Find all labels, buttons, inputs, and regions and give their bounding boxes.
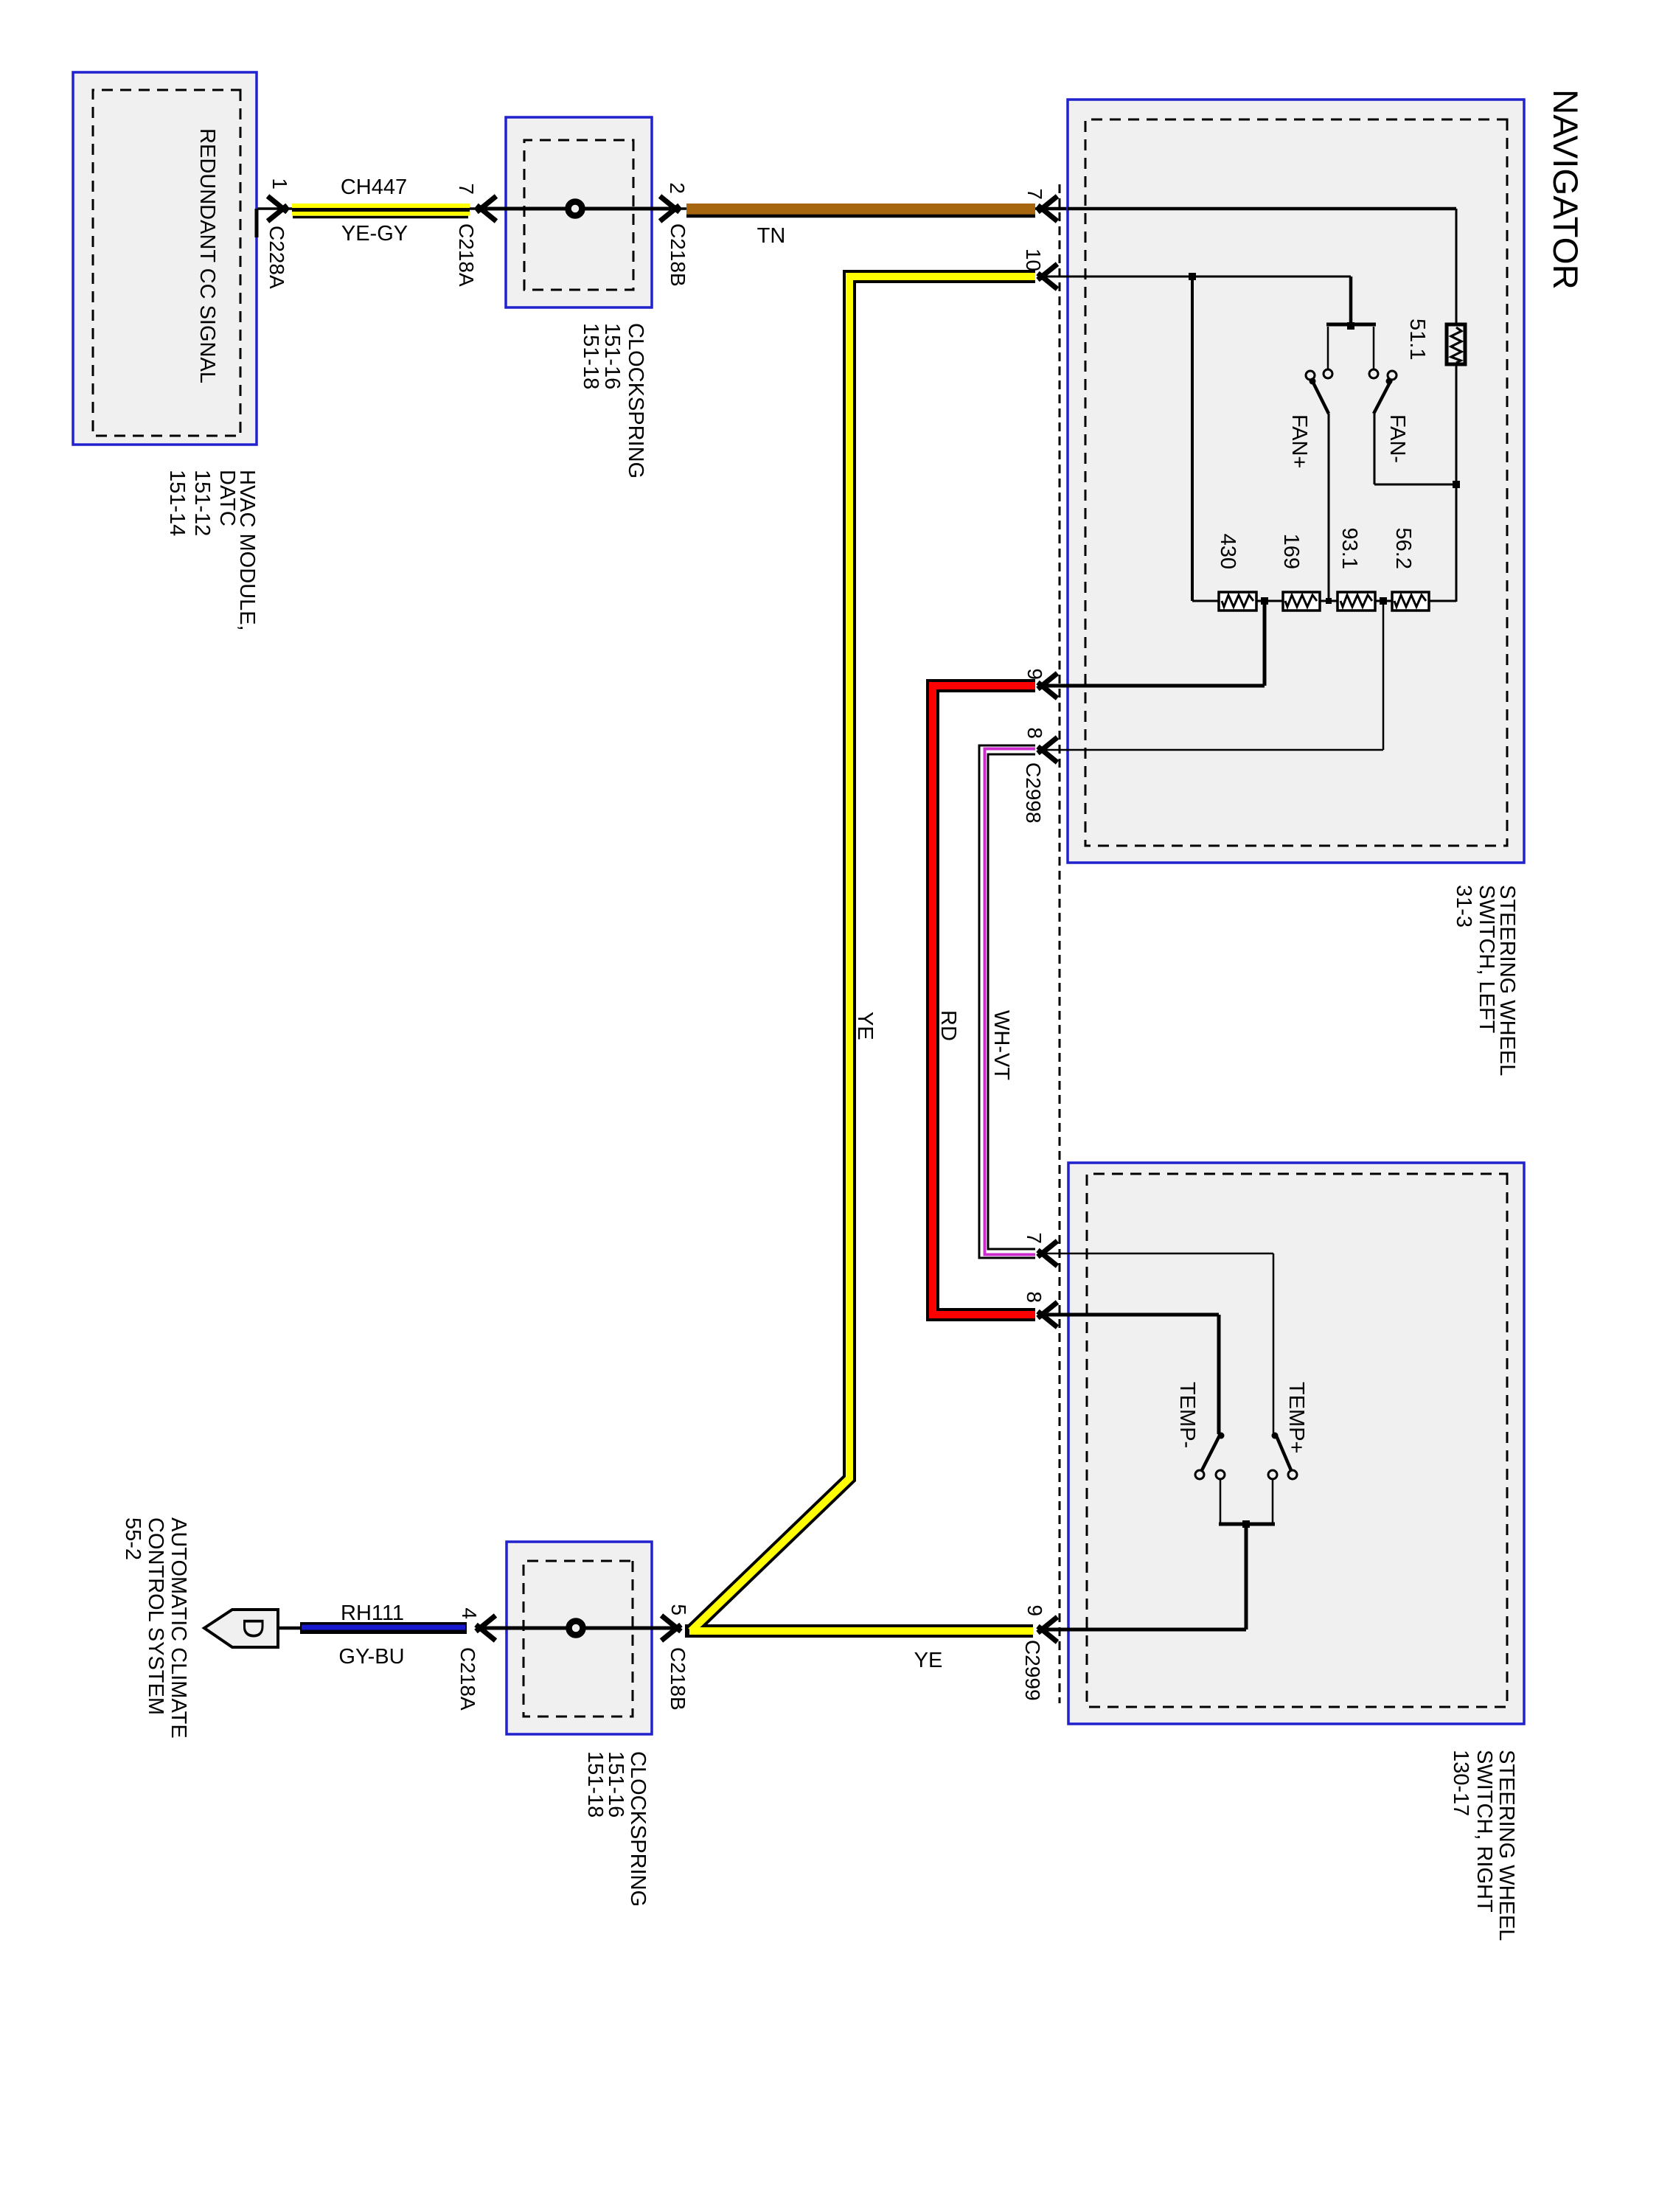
HVAC module inner dashed outline <box>93 90 240 436</box>
connector label C228A <box>265 226 288 289</box>
wire CH447 YE-GY yellow band <box>292 204 470 218</box>
svg-text:STEERING WHEEL: STEERING WHEEL <box>1495 1750 1518 1941</box>
svg-text:1: 1 <box>268 178 291 189</box>
label AUTOMATIC CLIMATE CONTROL SYSTEM 55-2 <box>121 1517 190 1739</box>
pin 9 arrow (left box) <box>1038 673 1058 698</box>
clockspring 1 coil symbol <box>568 202 582 216</box>
svg-text:D: D <box>237 1618 269 1639</box>
svg-text:CLOCKSPRING: CLOCKSPRING <box>624 323 647 479</box>
label CLOCKSPRING 151-16 151-18 (clockspring 1) <box>579 323 647 479</box>
svg-text:CLOCKSPRING: CLOCKSPRING <box>626 1751 650 1907</box>
value label 56.2 <box>1391 528 1415 569</box>
clockspring 2 inner dashed outline <box>524 1561 633 1717</box>
svg-text:430: 430 <box>1216 534 1239 569</box>
wire: pin 8 riser inside right box <box>1039 1313 1219 1317</box>
svg-text:8: 8 <box>1023 727 1046 739</box>
switch common bar (TEMP switches) <box>1219 1523 1275 1526</box>
pin label 4 (clockspring 2) <box>458 1607 481 1619</box>
wire: pin 9 riser inside left box <box>1039 684 1265 688</box>
value label 93.1 <box>1338 528 1361 569</box>
steering wheel switch right inner dashed outline <box>1087 1174 1507 1707</box>
NAVIGATOR region boundary dashed line <box>1059 184 1061 1703</box>
connector label C218A (clockspring 1) <box>455 223 478 287</box>
svg-text:9: 9 <box>1023 1604 1046 1616</box>
wire: pin 10 riser inside left box <box>1039 276 1351 278</box>
svg-text:DATC: DATC <box>215 470 239 526</box>
connector label C218A (clockspring 2) <box>456 1647 479 1711</box>
wire color label GY-BU <box>338 1645 404 1669</box>
label FAN- <box>1385 414 1409 463</box>
pin label 7 (right box) <box>1023 1232 1046 1244</box>
wire: pin 8 horizontal inside left box <box>1382 601 1385 750</box>
svg-text:151-16: 151-16 <box>600 323 624 389</box>
wire: pin 8 riser inside left box <box>1039 749 1383 751</box>
svg-text:CH447: CH447 <box>341 175 407 199</box>
svg-text:AUTOMATIC CLIMATE: AUTOMATIC CLIMATE <box>167 1517 190 1739</box>
component box: STEERING WHEEL SWITCH, RIGHT (blue) <box>1068 1163 1524 1724</box>
wire: resistor chain vertical <box>1192 600 1456 602</box>
clockspring 2 pin 5 arrow <box>661 1615 681 1641</box>
switch FAN- blade <box>1374 378 1393 414</box>
component box: STEERING WHEEL SWITCH, LEFT (blue) <box>1068 100 1524 863</box>
wire WH-VT violet stripe <box>985 749 1036 1255</box>
wire TN tan band <box>686 204 1035 216</box>
label TEMP- <box>1175 1382 1199 1448</box>
wire: pin 7 riser inside right box <box>1039 1253 1273 1255</box>
svg-text:WH-VT: WH-VT <box>990 1010 1013 1080</box>
wire: junction to resistor chain top <box>1455 484 1458 602</box>
label CLOCKSPRING 151-16 151-18 (clockspring 2) <box>583 1751 650 1907</box>
pin label 10 (left box) <box>1022 248 1045 271</box>
wire: pin 9 horizontal inside left box <box>1263 601 1267 686</box>
switch FAN+ blade <box>1310 378 1329 414</box>
wire: pin 7 horizontal to TEMP+ <box>1273 1253 1275 1434</box>
resistor 169 <box>1283 592 1320 611</box>
label TEMP+ <box>1284 1382 1308 1454</box>
svg-text:C2999: C2999 <box>1021 1640 1044 1701</box>
svg-text:C218A: C218A <box>455 223 478 287</box>
svg-text:55-2: 55-2 <box>121 1517 145 1560</box>
svg-text:YE-GY: YE-GY <box>341 222 408 246</box>
svg-text:7: 7 <box>455 183 478 195</box>
wire: main line HVAC module to steering wheel switch left (vertical riser x=283) <box>240 207 1071 210</box>
wire label YE (riser to clockspring 2) <box>914 1649 943 1672</box>
wire WH-VT white core <box>984 750 1035 1253</box>
svg-text:51.1: 51.1 <box>1405 319 1429 360</box>
pin label 7 (clockspring 1) <box>455 183 478 195</box>
clockspring 1 pin 7 arrow <box>477 196 497 221</box>
connector label C2999 <box>1021 1640 1044 1701</box>
svg-text:REDUNDANT CC SIGNAL: REDUNDANT CC SIGNAL <box>195 128 219 383</box>
pin label 5 (clockspring 2) <box>667 1604 690 1615</box>
svg-text:C218B: C218B <box>667 223 689 287</box>
svg-text:C218A: C218A <box>456 1647 479 1711</box>
wire label WH-VT <box>990 1010 1013 1080</box>
resistor 430 <box>1219 592 1256 611</box>
svg-text:31-3: 31-3 <box>1452 885 1475 928</box>
svg-text:56.2: 56.2 <box>1391 528 1415 569</box>
clockspring 2 pin 4 arrow <box>476 1615 496 1641</box>
pin 1 arrow (points away from HVAC box) <box>268 196 288 221</box>
label STEERING WHEEL SWITCH, LEFT 31-3 <box>1452 885 1519 1076</box>
svg-text:TN: TN <box>757 224 786 248</box>
wire: pin 9 riser inside right box <box>1039 1628 1246 1632</box>
svg-text:SWITCH, LEFT: SWITCH, LEFT <box>1475 885 1498 1034</box>
wire: branch to resistor chain bottom <box>1191 276 1194 601</box>
resistor 93.1 <box>1338 592 1375 611</box>
svg-text:C218B: C218B <box>667 1647 689 1711</box>
svg-text:FAN+: FAN+ <box>1287 414 1311 468</box>
pin label 9 (right box) <box>1023 1604 1046 1616</box>
wire label RH111 <box>341 1601 404 1625</box>
svg-text:151-12: 151-12 <box>190 470 214 536</box>
wire: FAN- pivot line <box>1374 414 1376 484</box>
wire: clockspring 2 main line (pin 5 to pin 4) <box>478 1627 679 1630</box>
wire: TEMP bar to pin 9 <box>1245 1524 1248 1630</box>
label HVAC MODULE, DATC 151-12 151-14 <box>165 470 259 631</box>
wire: pin 7 riser inside left box <box>1068 207 1456 211</box>
svg-text:FAN-: FAN- <box>1385 414 1409 463</box>
svg-text:5: 5 <box>667 1604 690 1615</box>
svg-text:10: 10 <box>1022 248 1045 271</box>
svg-text:C2998: C2998 <box>1022 762 1045 824</box>
resistor 56.2 <box>1392 592 1429 611</box>
pin label 1 <box>268 178 291 189</box>
pin label 2 (clockspring 1) <box>666 182 689 194</box>
svg-text:7: 7 <box>1023 188 1046 200</box>
pin 10 arrow (left box) <box>1038 264 1058 289</box>
wire: TEMP+ contact stub <box>1272 1480 1274 1524</box>
pin 7 arrow (right box) <box>1038 1241 1058 1266</box>
svg-text:GY-BU: GY-BU <box>338 1645 404 1669</box>
pin 1 connector tick at HVAC box edge <box>255 209 259 237</box>
svg-text:STEERING WHEEL: STEERING WHEEL <box>1495 885 1519 1076</box>
svg-text:151-16: 151-16 <box>604 1751 627 1818</box>
svg-text:C228A: C228A <box>265 226 288 289</box>
label FAN+ <box>1287 414 1311 468</box>
pin 9 arrow (right box) <box>1038 1617 1058 1642</box>
title NAVIGATOR <box>1545 89 1585 290</box>
svg-text:151-14: 151-14 <box>165 470 189 536</box>
switch TEMP+ blade <box>1272 1433 1292 1471</box>
wire: stub to connector D <box>278 1627 300 1630</box>
svg-text:4: 4 <box>458 1607 481 1619</box>
wire RD (left box pin 9 to right box pin 8) black outline <box>933 686 1035 1315</box>
wire RD red core <box>933 686 1035 1315</box>
svg-text:130-17: 130-17 <box>1449 1750 1472 1816</box>
junction node FAN+ tap on chain <box>1326 598 1332 604</box>
switch FAN- contacts <box>1369 369 1397 380</box>
svg-text:NAVIGATOR: NAVIGATOR <box>1545 89 1585 290</box>
switch TEMP- blade <box>1202 1433 1225 1471</box>
svg-text:TEMP+: TEMP+ <box>1284 1382 1308 1454</box>
wire: FAN- branch drop <box>1374 484 1456 486</box>
wire: pin 8 horizontal to TEMP- <box>1217 1315 1221 1434</box>
wire label YE (horizontal run) <box>853 1012 877 1040</box>
svg-text:169: 169 <box>1279 534 1303 569</box>
clockspring 2 coil symbol <box>569 1621 583 1635</box>
junction node at switch common bar <box>1347 322 1354 330</box>
wire: TEMP- contact stub <box>1220 1480 1222 1524</box>
label REDUNDANT CC SIGNAL <box>195 128 219 383</box>
pin 8 arrow (right box) <box>1038 1302 1058 1327</box>
wire: FAN+ pivot line to resistor chain <box>1328 414 1330 601</box>
pin 7 arrow (left box) <box>1038 196 1058 221</box>
pin label 8 (right box) <box>1023 1291 1046 1303</box>
svg-text:SWITCH, RIGHT: SWITCH, RIGHT <box>1472 1750 1496 1913</box>
wire label TN <box>757 224 786 248</box>
junction node pin 8 tap on chain <box>1380 597 1387 605</box>
svg-text:93.1: 93.1 <box>1338 528 1361 569</box>
switch TEMP+ contacts <box>1268 1470 1297 1479</box>
svg-text:151-18: 151-18 <box>583 1751 607 1818</box>
label STEERING WHEEL SWITCH, RIGHT 130-17 <box>1449 1750 1518 1941</box>
wire WH-VT (left box pin 8 to right box pin 7) outer black <box>984 750 1035 1253</box>
value label 169 <box>1279 534 1303 569</box>
clockspring box 2 (blue) <box>507 1542 652 1734</box>
switch TEMP- contacts <box>1195 1470 1225 1479</box>
wire color label YE-GY <box>341 222 408 246</box>
value label 51.1 <box>1405 319 1429 360</box>
clockspring box 1 shell (blue) <box>506 117 652 307</box>
switch common bar (FAN switches) <box>1326 323 1376 327</box>
switch FAN+ contacts <box>1306 369 1332 380</box>
connector box: HVAC MODULE (blue) <box>73 72 257 445</box>
pin label 9 (left box) <box>1023 668 1046 680</box>
svg-text:RH111: RH111 <box>341 1601 404 1625</box>
svg-text:8: 8 <box>1023 1291 1046 1303</box>
wire YE yellow core <box>689 276 1035 1631</box>
junction node at 51.1 / FAN- branch <box>1453 481 1460 488</box>
wire RH111 GY-BU blue core <box>302 1625 465 1630</box>
pin label 8 (left box) <box>1023 727 1046 739</box>
wire: resistor 51.1 to junction <box>1455 364 1458 484</box>
svg-text:YE: YE <box>853 1012 877 1040</box>
svg-text:TEMP-: TEMP- <box>1175 1382 1199 1448</box>
pin 8 arrow (left box) <box>1038 737 1058 762</box>
wire label RD <box>936 1010 960 1041</box>
svg-text:CONTROL SYSTEM: CONTROL SYSTEM <box>144 1517 167 1715</box>
wire RH111 GY-BU black band <box>300 1622 467 1634</box>
pin label 7 (left box) <box>1023 188 1046 200</box>
wire: FAN+ contact stub <box>1327 327 1329 369</box>
connector label C218B (clockspring 1) <box>667 223 689 287</box>
wire: pin 10 to switch common bar <box>1349 276 1353 324</box>
off-page connector D <box>204 1610 278 1647</box>
wire YE (left box pin 10 to clockspring 2 pin 5) black outline <box>685 276 1035 1631</box>
svg-text:151-18: 151-18 <box>579 323 602 389</box>
resistor 51.1 (filled box with white zigzag) <box>1447 324 1465 364</box>
svg-text:YE: YE <box>914 1649 943 1672</box>
wire: top feed to resistor 51.1 <box>1455 209 1458 324</box>
svg-text:9: 9 <box>1023 668 1046 680</box>
clockspring 1 pin 2 arrow <box>660 196 680 221</box>
junction node pin 9 tap on chain <box>1261 597 1268 605</box>
junction node on TEMP common bar <box>1242 1520 1250 1528</box>
wire: FAN- contact stub <box>1373 327 1375 369</box>
wire label CH447 <box>341 175 407 199</box>
svg-text:2: 2 <box>666 182 689 194</box>
steering wheel switch left inner dashed outline <box>1085 119 1507 846</box>
junction node on pin 10 riser <box>1189 273 1196 280</box>
value label 430 <box>1216 534 1239 569</box>
connector label C2998 <box>1022 762 1045 824</box>
svg-text:7: 7 <box>1023 1232 1046 1244</box>
svg-text:RD: RD <box>936 1010 960 1041</box>
connector label C218B (clockspring 2) <box>667 1647 689 1711</box>
